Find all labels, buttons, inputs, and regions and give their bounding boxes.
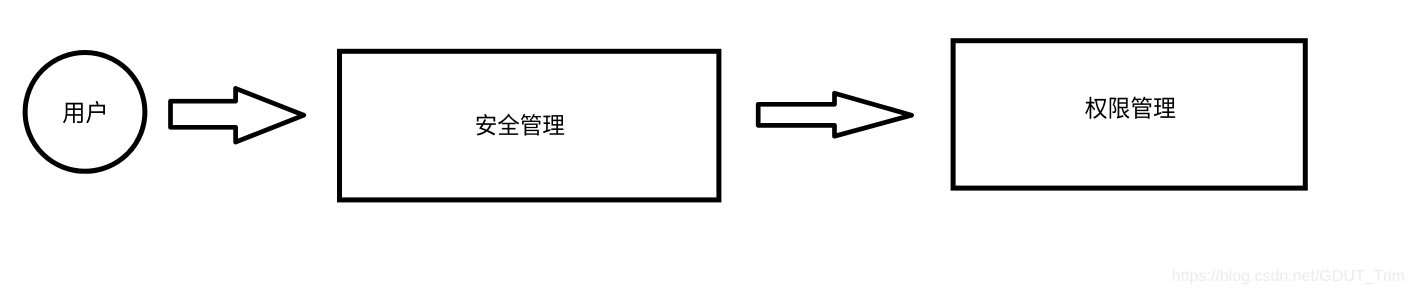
node: 安全管理 box (340, 51, 719, 200)
node: 权限管理 box (953, 41, 1305, 188)
watermark (1172, 268, 1405, 286)
label: 安全管理 (476, 114, 564, 136)
node: user circle (25, 53, 145, 172)
arrow 2 (758, 93, 911, 136)
arrow 1 (171, 88, 304, 142)
label: 权限管理 (1085, 97, 1175, 119)
label: 用户 (63, 101, 105, 123)
